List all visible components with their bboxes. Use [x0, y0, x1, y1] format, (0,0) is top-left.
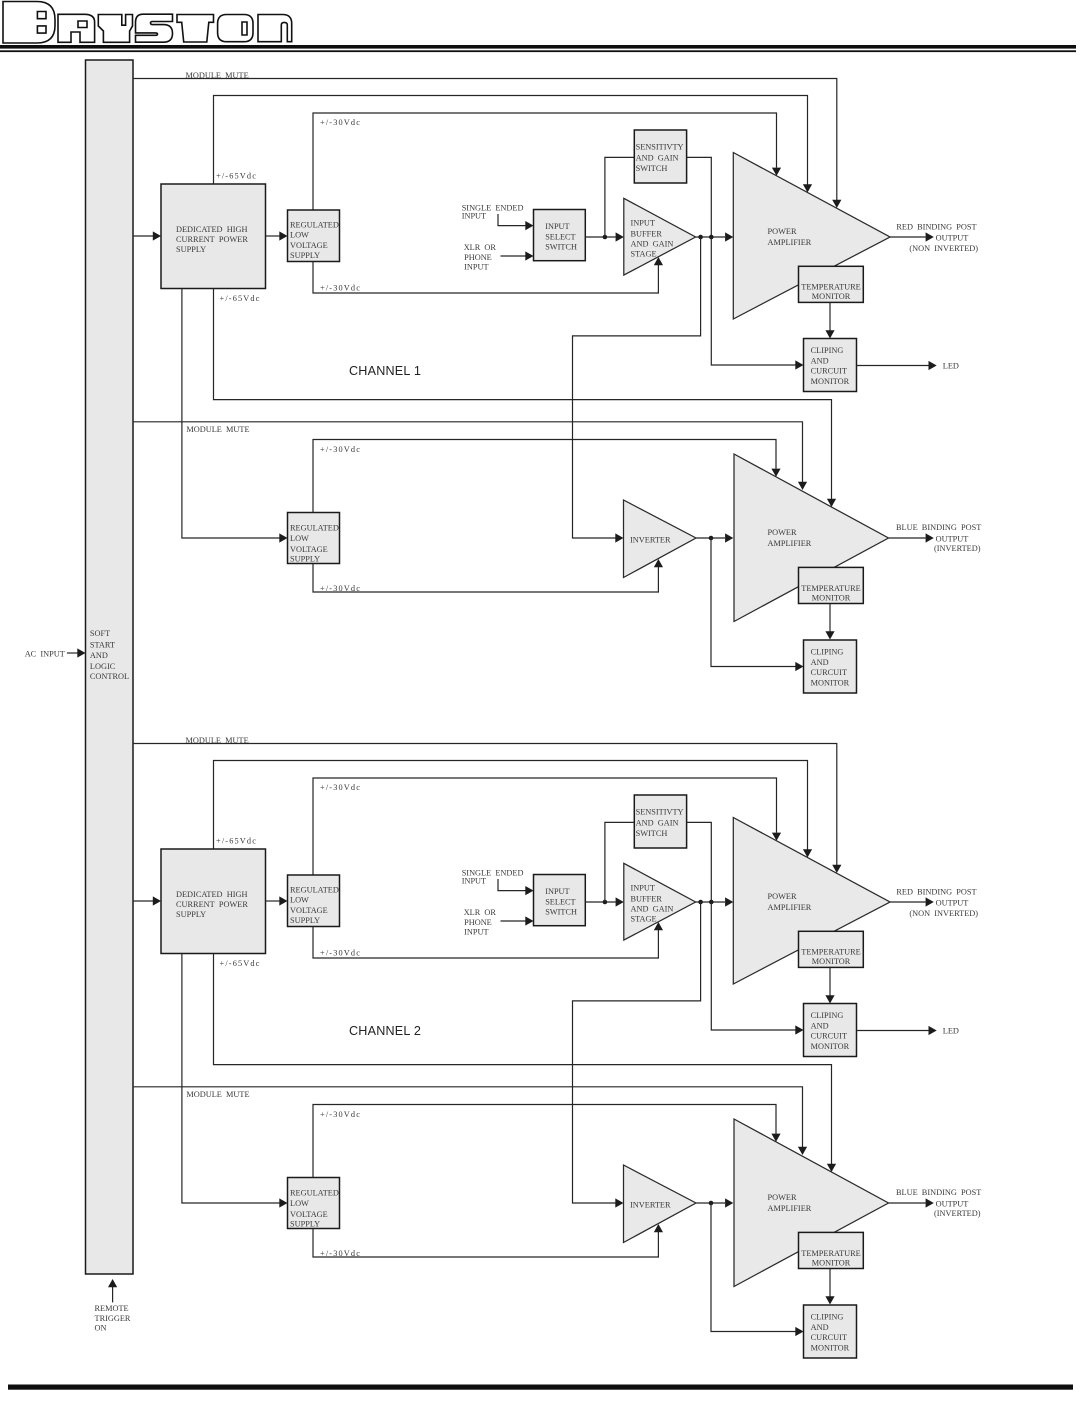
wire blue binding post output channel 2: [889, 1198, 934, 1207]
svg-text:(INVERTED): (INVERTED): [934, 544, 981, 553]
svg-text:DEDICATED HIGH: DEDICATED HIGH: [176, 225, 247, 234]
wire buffer output down to inverter channel 1: [573, 237, 701, 543]
svg-text:CHANNEL 1: CHANNEL 1: [349, 364, 421, 378]
label REMOTE TRIGGER ON: [95, 1304, 131, 1333]
svg-text:TEMPERATURE: TEMPERATURE: [801, 1249, 860, 1258]
regulated low voltage supply (inverted) channel 1: [288, 513, 340, 564]
svg-text:CURCUIT: CURCUIT: [811, 367, 847, 376]
wire XLR input channel 2: [501, 916, 534, 925]
svg-text:CHANNEL 2: CHANNEL 2: [349, 1024, 421, 1038]
svg-text:MODULE MUTE: MODULE MUTE: [186, 736, 249, 745]
Bryston logo letter T: [177, 15, 214, 43]
svg-text:MONITOR: MONITOR: [811, 679, 850, 688]
svg-text:LOW: LOW: [290, 896, 309, 905]
svg-text:+/-65Vdc: +/-65Vdc: [220, 294, 261, 303]
svg-text:LOW: LOW: [290, 1199, 309, 1208]
svg-text:REGULATED: REGULATED: [290, 524, 339, 533]
svg-text:TEMPERATURE: TEMPERATURE: [801, 584, 860, 593]
svg-text:LOGIC: LOGIC: [90, 662, 116, 671]
label RED BINDING POST OUTPUT (NON INVERTED) channel 1: [896, 222, 978, 253]
label XLR OR PHONE INPUT channel 1: [464, 243, 497, 272]
clipping and circuit monitor (non-inverted) channel 2: [804, 1004, 857, 1057]
input buffer and gain stage channel 2: [624, 863, 696, 940]
svg-text:BLUE BINDING POST: BLUE BINDING POST: [896, 523, 981, 532]
wire temperature monitor to clipping monitor (inverted) channel 2: [825, 1269, 834, 1305]
label BLUE BINDING POST OUTPUT (INVERTED) channel 2: [896, 1188, 981, 1218]
svg-text:AMPLIFIER: AMPLIFIER: [768, 539, 812, 548]
Bryston logo letter Y: [98, 15, 132, 43]
wire clipping monitor to LED channel 1: [857, 361, 937, 370]
wire dedicated supply to regulated supply channel 1: [266, 231, 288, 240]
svg-text:REGULATED: REGULATED: [290, 220, 339, 229]
temperature monitor (inverted) channel 2: [799, 1232, 864, 1268]
svg-text:+/-30Vdc: +/-30Vdc: [320, 1110, 361, 1119]
svg-text:AND: AND: [811, 1323, 829, 1332]
svg-text:CLIPING: CLIPING: [811, 346, 844, 355]
header rule thin: [0, 50, 1076, 52]
clipping and circuit monitor (non-inverted) channel 1: [804, 339, 857, 392]
svg-text:PHONE: PHONE: [464, 253, 492, 262]
wire single ended input channel 1: [498, 214, 534, 230]
wire +/-30Vdc upper rail channel 2: [313, 778, 781, 875]
svg-text:INPUT: INPUT: [631, 883, 655, 892]
svg-text:INPUT: INPUT: [631, 218, 655, 227]
svg-text:INPUT: INPUT: [464, 928, 488, 937]
label SINGLE ENDED INPUT channel 1: [462, 204, 524, 221]
label BLUE BINDING POST OUTPUT (INVERTED) channel 1: [896, 523, 981, 553]
svg-text:AND GAIN: AND GAIN: [636, 819, 679, 828]
wire +/-30Vdc upper rail channel 1: [313, 113, 781, 210]
wire +/-65Vdc upper rail channel 1: [214, 96, 813, 193]
svg-text:BLUE BINDING POST: BLUE BINDING POST: [896, 1188, 981, 1197]
svg-text:REGULATED: REGULATED: [290, 1189, 339, 1198]
svg-text:AND: AND: [811, 356, 829, 365]
svg-text:SENSITIVTY: SENSITIVTY: [636, 808, 684, 817]
sensitivity and gain switch channel 2: [634, 795, 686, 848]
svg-text:+/-65Vdc: +/-65Vdc: [220, 959, 261, 968]
wire remote trigger on: [108, 1279, 117, 1302]
dedicated high current power supply channel 2: [161, 849, 266, 954]
svg-text:AND: AND: [811, 1021, 829, 1030]
svg-text:+/-30Vdc: +/-30Vdc: [320, 584, 361, 593]
svg-text:SELECT: SELECT: [545, 232, 575, 241]
clipping and circuit monitor (inverted) channel 1: [804, 640, 857, 693]
wire sensitivity switch to output node channel 2: [687, 822, 712, 902]
svg-text:+/-30Vdc: +/-30Vdc: [320, 118, 361, 127]
svg-text:(INVERTED): (INVERTED): [934, 1209, 981, 1218]
wire sensitivity switch to output node channel 1: [687, 157, 712, 237]
svg-text:BUFFER: BUFFER: [631, 229, 663, 238]
svg-text:MONITOR: MONITOR: [812, 292, 851, 301]
svg-text:AMPLIFIER: AMPLIFIER: [768, 1204, 812, 1213]
svg-text:CURRENT POWER: CURRENT POWER: [176, 235, 248, 244]
input buffer and gain stage channel 1: [624, 198, 696, 275]
regulated low voltage supply (non-inverted) channel 2: [288, 875, 340, 927]
svg-text:INPUT: INPUT: [545, 887, 569, 896]
wire module mute (channel 1 inverted): [133, 422, 808, 490]
svg-text:INVERTER: INVERTER: [630, 1201, 671, 1210]
svg-text:POWER: POWER: [768, 227, 798, 236]
svg-text:INPUT: INPUT: [464, 263, 488, 272]
Bryston logo letter S: [136, 14, 173, 42]
svg-text:INVERTER: INVERTER: [630, 536, 671, 545]
wire node to clipping monitor channel 1: [711, 237, 803, 370]
footer rule: [8, 1385, 1073, 1390]
svg-text:MODULE MUTE: MODULE MUTE: [186, 425, 249, 434]
svg-text:SUPPLY: SUPPLY: [176, 245, 206, 254]
svg-text:XLR OR: XLR OR: [464, 243, 497, 252]
label RED BINDING POST OUTPUT (NON INVERTED) channel 2: [896, 887, 978, 918]
svg-text:SELECT: SELECT: [545, 897, 575, 906]
svg-text:MONITOR: MONITOR: [811, 377, 850, 386]
svg-text:+/-30Vdc: +/-30Vdc: [320, 783, 361, 792]
svg-text:+/-30Vdc: +/-30Vdc: [320, 1249, 361, 1258]
svg-text:CURCUIT: CURCUIT: [811, 668, 847, 677]
svg-text:VOLTAGE: VOLTAGE: [290, 241, 328, 250]
input select switch channel 2: [534, 875, 586, 926]
wire soft-start to dedicated supply channel 2: [133, 896, 162, 905]
regulated low voltage supply (non-inverted) channel 1: [288, 210, 340, 262]
inverter channel 1: [624, 500, 697, 578]
temperature monitor (non-inverted) channel 1: [799, 266, 864, 302]
svg-text:INPUT: INPUT: [545, 222, 569, 231]
wire +/-30Vdc lower feed to input buffer channel 1: [313, 257, 663, 293]
svg-text:MONITOR: MONITOR: [812, 1258, 851, 1267]
wire +/-30Vdc top rail to inverted amplifier channel 1: [313, 440, 781, 513]
wire +/-65Vdc to inverted amplifier channel 1: [214, 289, 837, 508]
svg-text:REMOTE: REMOTE: [95, 1304, 129, 1313]
svg-text:+/-30Vdc: +/-30Vdc: [320, 949, 361, 958]
svg-text:LOW: LOW: [290, 534, 309, 543]
svg-text:SWITCH: SWITCH: [636, 164, 668, 173]
svg-text:+/-65Vdc: +/-65Vdc: [216, 837, 257, 846]
svg-text:CLIPING: CLIPING: [811, 648, 844, 657]
svg-text:LED: LED: [943, 362, 959, 371]
svg-text:SUPPLY: SUPPLY: [176, 910, 206, 919]
svg-text:OUTPUT: OUTPUT: [936, 234, 969, 243]
svg-text:AND GAIN: AND GAIN: [636, 154, 679, 163]
wire dedicated supply to regulated supply channel 2: [266, 896, 288, 905]
wire single ended input channel 2: [498, 879, 534, 895]
svg-text:SOFT: SOFT: [90, 629, 110, 638]
svg-text:POWER: POWER: [768, 892, 798, 901]
wire inverter output to inverted power amplifier channel 2: [696, 1198, 733, 1207]
Bryston logo letter O: [218, 15, 253, 42]
wire inverter output to clipping monitor channel 1: [711, 538, 804, 671]
wire temperature monitor to clipping monitor (inverted) channel 1: [825, 604, 834, 640]
wire XLR input channel 1: [501, 251, 534, 260]
svg-text:SENSITIVTY: SENSITIVTY: [636, 143, 684, 152]
svg-text:SUPPLY: SUPPLY: [290, 251, 320, 260]
wire temperature monitor to clipping monitor channel 2: [825, 967, 834, 1003]
wire select switch to input buffer channel 1: [585, 232, 624, 241]
soft start and logic control: [86, 60, 134, 1274]
svg-text:MODULE MUTE: MODULE MUTE: [186, 1090, 249, 1099]
wire clipping monitor to LED channel 2: [857, 1026, 937, 1035]
svg-text:PHONE: PHONE: [464, 918, 492, 927]
svg-text:(NON INVERTED): (NON INVERTED): [909, 244, 978, 253]
svg-text:CLIPING: CLIPING: [811, 1011, 844, 1020]
svg-text:AND GAIN: AND GAIN: [631, 239, 674, 248]
svg-text:OUTPUT: OUTPUT: [936, 899, 969, 908]
svg-text:POWER: POWER: [768, 528, 798, 537]
Bryston logo letter R: [58, 14, 95, 42]
wire node to sensitivity switch channel 1: [605, 157, 634, 237]
svg-text:AND: AND: [90, 651, 108, 660]
regulated low voltage supply (inverted) channel 2: [288, 1178, 340, 1229]
svg-text:DEDICATED HIGH: DEDICATED HIGH: [176, 890, 247, 899]
wire module mute (channel 1 non-inverted): [133, 79, 842, 209]
svg-text:OUTPUT: OUTPUT: [936, 535, 969, 544]
svg-text:CLIPING: CLIPING: [811, 1313, 844, 1322]
svg-text:TEMPERATURE: TEMPERATURE: [801, 283, 860, 292]
wire module mute (channel 2 inverted): [133, 1087, 808, 1155]
svg-text:MONITOR: MONITOR: [811, 1042, 850, 1051]
svg-text:+/-65Vdc: +/-65Vdc: [216, 172, 257, 181]
svg-text:MONITOR: MONITOR: [812, 957, 851, 966]
svg-text:BUFFER: BUFFER: [631, 894, 663, 903]
dedicated high current power supply channel 1: [161, 184, 266, 289]
svg-text:MODULE MUTE: MODULE MUTE: [186, 71, 249, 80]
wire +/-65Vdc to inverted amplifier channel 2: [214, 954, 837, 1173]
sensitivity and gain switch channel 1: [634, 130, 686, 183]
svg-text:SUPPLY: SUPPLY: [290, 916, 320, 925]
svg-text:STAGE: STAGE: [631, 915, 657, 924]
svg-text:OUTPUT: OUTPUT: [936, 1200, 969, 1209]
clipping and circuit monitor (inverted) channel 2: [804, 1305, 857, 1358]
svg-text:TEMPERATURE: TEMPERATURE: [801, 948, 860, 957]
wire red binding post output channel 1: [890, 232, 934, 241]
svg-text:INPUT: INPUT: [462, 212, 486, 221]
temperature monitor (inverted) channel 1: [799, 567, 864, 603]
svg-text:AMPLIFIER: AMPLIFIER: [768, 238, 812, 247]
wire temperature monitor to clipping monitor channel 1: [825, 302, 834, 338]
Bryston logo letter B: [3, 2, 55, 44]
inverter channel 2: [624, 1165, 697, 1243]
svg-text:XLR OR: XLR OR: [464, 908, 497, 917]
svg-text:START: START: [90, 640, 115, 649]
svg-text:VOLTAGE: VOLTAGE: [290, 906, 328, 915]
svg-text:VOLTAGE: VOLTAGE: [290, 545, 328, 554]
svg-text:RED BINDING POST: RED BINDING POST: [896, 222, 976, 231]
svg-text:MONITOR: MONITOR: [812, 593, 851, 602]
wire inverter output to clipping monitor channel 2: [711, 1203, 804, 1336]
wire +/-30Vdc lower feed to input buffer channel 2: [313, 922, 663, 958]
wire blue binding post output channel 1: [889, 533, 934, 542]
svg-text:VOLTAGE: VOLTAGE: [290, 1210, 328, 1219]
svg-text:(NON INVERTED): (NON INVERTED): [909, 909, 978, 918]
svg-text:ON: ON: [95, 1324, 107, 1333]
svg-text:TRIGGER: TRIGGER: [95, 1314, 131, 1323]
wire node to sensitivity switch channel 2: [605, 822, 634, 902]
wire buffer output to power amplifier channel 2: [696, 897, 734, 906]
wire select switch to input buffer channel 2: [585, 897, 624, 906]
svg-text:SUPPLY: SUPPLY: [290, 555, 320, 564]
svg-text:MONITOR: MONITOR: [811, 1344, 850, 1353]
svg-text:POWER: POWER: [768, 1193, 798, 1202]
label XLR OR PHONE INPUT channel 2: [464, 908, 497, 937]
wire node to clipping monitor channel 2: [711, 902, 803, 1035]
svg-text:+/-30Vdc: +/-30Vdc: [320, 445, 361, 454]
power amplifier (non-inverted) channel 1: [733, 153, 890, 320]
wire dedicated supply to regulated supply (inverted) channel 2: [182, 954, 288, 1208]
svg-text:AMPLIFIER: AMPLIFIER: [768, 903, 812, 912]
svg-text:LOW: LOW: [290, 231, 309, 240]
svg-text:CURCUIT: CURCUIT: [811, 1333, 847, 1342]
svg-text:SUPPLY: SUPPLY: [290, 1220, 320, 1229]
wire +/-30Vdc top rail to inverted amplifier channel 2: [313, 1105, 781, 1178]
wire +/-30Vdc lower feed to inverter channel 1: [313, 559, 663, 592]
svg-text:SWITCH: SWITCH: [545, 907, 577, 916]
svg-text:SWITCH: SWITCH: [636, 829, 668, 838]
input select switch channel 1: [534, 210, 586, 261]
power amplifier (inverted) channel 2: [734, 1119, 889, 1287]
wire buffer output down to inverter channel 2: [573, 902, 701, 1208]
svg-text:INPUT: INPUT: [462, 877, 486, 886]
wire module mute (channel 2 non-inverted): [133, 744, 842, 874]
wire AC input: [67, 648, 86, 657]
wire inverter output to inverted power amplifier channel 1: [696, 533, 733, 542]
svg-text:CURRENT POWER: CURRENT POWER: [176, 900, 248, 909]
svg-text:REGULATED: REGULATED: [290, 885, 339, 894]
power amplifier (inverted) channel 1: [734, 454, 889, 622]
svg-text:LED: LED: [943, 1027, 959, 1036]
svg-text:SWITCH: SWITCH: [545, 242, 577, 251]
wire +/-65Vdc upper rail channel 2: [214, 761, 813, 858]
Bryston logo letter N: [258, 15, 292, 42]
svg-text:RED BINDING POST: RED BINDING POST: [896, 887, 976, 896]
svg-text:AND: AND: [811, 658, 829, 667]
wire dedicated supply to regulated supply (inverted) channel 1: [182, 289, 288, 543]
svg-text:STAGE: STAGE: [631, 250, 657, 259]
label SINGLE ENDED INPUT channel 2: [462, 869, 524, 886]
svg-text:AND GAIN: AND GAIN: [631, 904, 674, 913]
temperature monitor (non-inverted) channel 2: [799, 931, 864, 967]
wire red binding post output channel 2: [890, 897, 934, 906]
svg-text:CURCUIT: CURCUIT: [811, 1032, 847, 1041]
wire soft-start to dedicated supply channel 1: [133, 231, 162, 240]
power amplifier (non-inverted) channel 2: [733, 818, 890, 985]
svg-text:+/-30Vdc: +/-30Vdc: [320, 284, 361, 293]
svg-text:AC INPUT: AC INPUT: [25, 650, 65, 659]
header rule thick: [0, 45, 1076, 49]
wire buffer output to power amplifier channel 1: [696, 232, 734, 241]
wire +/-30Vdc lower feed to inverter channel 2: [313, 1224, 663, 1257]
svg-text:CONTROL: CONTROL: [90, 672, 129, 681]
